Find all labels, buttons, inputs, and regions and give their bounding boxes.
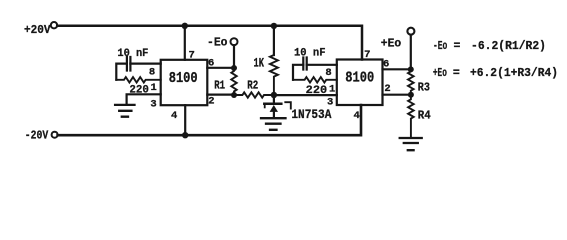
- svg-text:7: 7: [364, 49, 370, 61]
- resistor 1K: [270, 55, 278, 95]
- svg-text:1: 1: [151, 82, 157, 94]
- svg-text:+Eo=+6.2(1+R3/R4): +Eo=+6.2(1+R3/R4): [433, 67, 558, 80]
- wire U1 pin2: [207, 93, 234, 95]
- node 1K / zener / R2: [271, 92, 277, 98]
- wire top rail: [57, 26, 362, 60]
- svg-text:-Eo: -Eo: [207, 36, 228, 49]
- resistor R3: [408, 69, 414, 94]
- +20V terminal: [51, 22, 57, 28]
- wire -Eo riser: [233, 45, 235, 68]
- svg-text:8: 8: [325, 67, 331, 79]
- node pin6 / -Eo: [231, 65, 237, 71]
- svg-text:R4: R4: [418, 110, 431, 123]
- svg-text:4: 4: [353, 110, 359, 122]
- wire U1 pin7 riser: [184, 26, 186, 60]
- svg-text:7: 7: [189, 49, 195, 61]
- node R1/R2/pin2: [231, 92, 237, 98]
- node top rail / 1K: [271, 23, 277, 29]
- svg-text:10 nF: 10 nF: [294, 47, 326, 59]
- svg-text:10 nF: 10 nF: [117, 48, 148, 60]
- capacitor C1 plates: [127, 57, 130, 71]
- node top rail / U1 pin7: [182, 23, 188, 29]
- svg-text:R2: R2: [247, 79, 258, 92]
- node pin6 / R3 / +Eo: [408, 66, 414, 72]
- svg-text:2: 2: [384, 83, 390, 95]
- svg-text:R3: R3: [418, 81, 430, 94]
- op-amp U2 8100: [337, 60, 383, 106]
- wire U1 pin3 to ground: [127, 94, 161, 104]
- wire U2 pin2: [383, 94, 411, 96]
- capacitor C2 plates: [303, 58, 306, 70]
- svg-text:8100: 8100: [345, 71, 374, 87]
- zener diode 1N753A: [273, 95, 275, 103]
- resistor 220 (U2): [293, 77, 337, 82]
- wire U1 pin4 riser: [184, 105, 186, 135]
- svg-text:3: 3: [327, 97, 333, 109]
- svg-text:3: 3: [150, 98, 156, 110]
- svg-text:2: 2: [208, 96, 214, 108]
- svg-text:220: 220: [306, 85, 328, 97]
- ground (U1 pin3): [115, 105, 134, 117]
- svg-text:8100: 8100: [169, 71, 198, 87]
- wire U1 pin6: [207, 67, 234, 69]
- -Eo terminal: [231, 38, 238, 45]
- resistor 220 (U1): [116, 77, 160, 82]
- wire bottom rail: [58, 105, 361, 135]
- wire U2 pin6: [383, 68, 411, 70]
- svg-text:R1: R1: [214, 79, 225, 92]
- ground (zener): [261, 118, 286, 130]
- svg-text:1: 1: [329, 83, 335, 95]
- node pin2 / R3 / R4: [408, 92, 414, 98]
- svg-text:1N753A: 1N753A: [291, 107, 331, 122]
- wire zener junction to U2 pin3: [274, 94, 337, 96]
- svg-text:1K: 1K: [254, 57, 265, 71]
- +Eo terminal: [407, 28, 414, 35]
- resistor R4: [408, 95, 414, 137]
- wire 1K riser: [273, 26, 275, 55]
- svg-text:-20V: -20V: [25, 129, 48, 142]
- -20V terminal: [52, 132, 58, 138]
- wire C1 top: [116, 64, 160, 80]
- op-amp U1 8100: [161, 60, 208, 105]
- node U1 pin4 / bottom rail: [182, 132, 188, 138]
- svg-text:4: 4: [171, 110, 177, 122]
- svg-text:-Eo=-6.2(R1/R2): -Eo=-6.2(R1/R2): [433, 40, 546, 53]
- wire C2 top: [293, 65, 337, 80]
- wire +Eo riser: [410, 35, 412, 70]
- svg-text:+20V: +20V: [24, 24, 51, 37]
- resistor R2: [234, 92, 274, 97]
- ground (R4): [400, 138, 422, 150]
- svg-text:8: 8: [149, 67, 155, 79]
- resistor R1: [231, 68, 236, 95]
- svg-text:+Eo: +Eo: [381, 38, 401, 51]
